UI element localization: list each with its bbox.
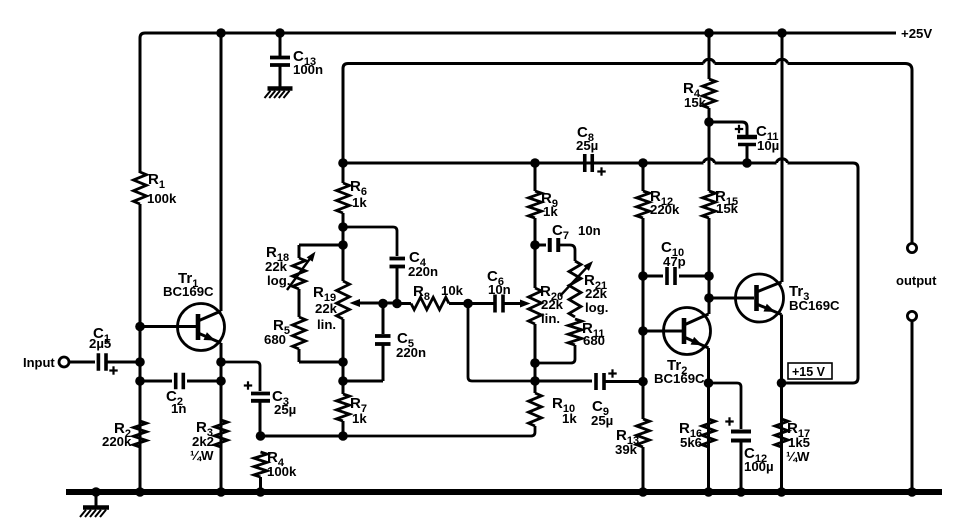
svg-text:1k: 1k <box>352 411 367 426</box>
label +25V <box>901 26 932 41</box>
label output <box>896 273 937 288</box>
wire C11 bottom <box>746 145 749 164</box>
node C3-R4 junction <box>256 431 266 441</box>
value C3 25u <box>272 388 296 417</box>
capacitor C1 <box>98 353 106 371</box>
node base-C1 <box>135 357 145 367</box>
plus C9 <box>608 369 616 377</box>
value R11 680 <box>582 320 605 348</box>
value R15 15k <box>715 188 739 216</box>
svg-text:2µ5: 2µ5 <box>89 336 111 351</box>
capacitor C2 <box>176 373 184 390</box>
wire C13 to ground <box>279 65 282 87</box>
svg-text:15k: 15k <box>684 95 707 110</box>
wire Tr3 emitter down <box>780 315 783 493</box>
wire C10 right stem <box>679 275 709 278</box>
wire C7 to R21 <box>559 245 576 261</box>
value C1 2u5 <box>89 325 111 351</box>
node R5 rejoin <box>338 357 348 367</box>
plus C3 <box>244 381 252 389</box>
wire C11 top <box>709 122 747 135</box>
value R21 22k log <box>584 272 608 315</box>
node C11 bottom junction <box>742 158 752 168</box>
node rail-R17 <box>777 487 787 497</box>
terminal output upper <box>907 243 916 252</box>
node base-C2 <box>135 376 145 386</box>
svg-text:10µ: 10µ <box>757 138 779 153</box>
wire return to C9 <box>535 380 592 383</box>
capacitor C13 <box>270 58 290 66</box>
svg-text:+25V: +25V <box>901 26 932 41</box>
value C6 10n <box>487 268 511 297</box>
wire Tr2 emitter down <box>707 348 710 492</box>
wire Tr3 collector up <box>781 33 784 282</box>
value C5 220n <box>396 330 426 360</box>
capacitor C6 <box>468 295 503 313</box>
svg-text:680: 680 <box>264 332 286 347</box>
resistor R12 <box>637 163 650 276</box>
node rail-R3 <box>216 487 226 497</box>
value C13 100n <box>293 48 323 77</box>
plus C11 <box>735 125 743 133</box>
node C7 branch <box>530 240 540 250</box>
node rail-R2 <box>135 487 145 497</box>
wire R18 branch top <box>299 245 343 258</box>
svg-text:25µ: 25µ <box>591 413 613 428</box>
value R17 1k5 1/4W <box>786 420 810 464</box>
value C9 25u <box>591 398 613 428</box>
wire R5 branch bottom <box>299 349 343 362</box>
node wiper-C4 <box>392 299 402 309</box>
wire C9 to Tr2 base node <box>604 380 643 383</box>
value C7 10n <box>552 222 601 242</box>
value C10 47p <box>661 239 686 269</box>
resistor R2 <box>134 421 147 447</box>
value R7 1k <box>350 395 367 426</box>
wire C3 to return line <box>260 401 343 436</box>
resistor R6 <box>337 183 350 213</box>
wire hop C8-row over Tr3 collector <box>777 159 788 163</box>
value R18 22k log <box>265 244 290 288</box>
wiper R19 <box>350 299 398 307</box>
transistor Tr1 BC169C <box>178 304 225 351</box>
capacitor C10 <box>667 267 675 285</box>
node rail-output <box>907 487 917 497</box>
node rail-ground <box>91 487 101 497</box>
wire C5 bottom <box>343 344 383 381</box>
node C4 branch <box>338 222 348 232</box>
wire C13 stem <box>279 33 282 56</box>
resistor R1 <box>134 172 147 326</box>
wire C1 to base node <box>106 361 140 364</box>
svg-text:1k: 1k <box>352 195 367 210</box>
capacitor C8 <box>585 154 593 172</box>
svg-text:Input: Input <box>23 355 55 370</box>
wire input to C1 <box>69 361 95 364</box>
node R18 branch <box>338 240 348 250</box>
svg-text:10n: 10n <box>488 282 511 297</box>
label Tr1 <box>163 270 214 299</box>
wire output lower to rail <box>911 321 914 493</box>
svg-text:100k: 100k <box>267 464 297 479</box>
wire R20 bottom <box>534 324 537 393</box>
value R8 10k <box>413 283 464 303</box>
wire feedback corner down <box>781 163 858 383</box>
capacitor C11 <box>737 137 757 145</box>
resistor R13 <box>637 419 650 492</box>
svg-text:220k: 220k <box>102 434 132 449</box>
wire C4 bottom <box>396 267 399 304</box>
wire R12 to base <box>642 276 645 419</box>
wire Tr3 base <box>709 297 754 300</box>
node base-R1 <box>135 322 145 332</box>
wire hop C8-row over R15 column <box>704 159 715 163</box>
label Input <box>23 355 55 370</box>
svg-text:lin.: lin. <box>541 311 560 326</box>
svg-text:1k5: 1k5 <box>788 435 810 450</box>
value R13 39k <box>615 427 639 457</box>
svg-text:¼W: ¼W <box>190 448 214 463</box>
value C8 25u <box>576 124 598 153</box>
value R9 1k <box>541 190 558 219</box>
wire C7 left <box>535 244 546 247</box>
svg-text:25µ: 25µ <box>274 402 296 417</box>
svg-text:220n: 220n <box>396 345 426 360</box>
resistor R4 (15k) <box>703 33 716 122</box>
svg-text:22k: 22k <box>265 259 288 274</box>
potentiometer R18 <box>287 252 316 291</box>
svg-text:1n: 1n <box>171 401 186 416</box>
wire output feedback rail <box>343 64 912 244</box>
potentiometer R21 <box>560 261 593 317</box>
resistor R15 <box>703 122 716 314</box>
svg-text:680: 680 <box>583 333 605 348</box>
resistor R10 <box>343 393 542 436</box>
node rail-C12 <box>736 487 746 497</box>
transistor Tr3 BC169C <box>736 274 784 322</box>
wire C12 bottom <box>740 441 743 493</box>
svg-text:22k: 22k <box>315 301 338 316</box>
node row-R12 <box>638 158 648 168</box>
svg-text:100µ: 100µ <box>744 459 774 474</box>
node C10 right <box>704 271 714 281</box>
svg-text:47p: 47p <box>663 254 686 269</box>
node rail-R13 <box>638 487 648 497</box>
wiper R20 <box>503 300 531 308</box>
plus C12 <box>725 417 733 425</box>
svg-text:220k: 220k <box>650 202 680 217</box>
svg-text:15k: 15k <box>716 201 739 216</box>
capacitor C12 <box>731 432 751 441</box>
node emitter-C2 <box>216 376 226 386</box>
wire R6 column top <box>342 163 345 183</box>
label Tr2 <box>654 357 705 386</box>
svg-text:100k: 100k <box>147 191 177 206</box>
wire R9 to R20 <box>534 218 537 288</box>
capacitor C9 <box>596 373 604 390</box>
wire C2 left <box>140 380 172 383</box>
node C9-R13 <box>638 377 648 387</box>
node R4-C11 <box>704 117 714 127</box>
ground C13 <box>265 89 293 99</box>
node emitter-C12 <box>704 378 714 388</box>
resistor R8 10k <box>397 297 468 309</box>
svg-text:log.: log. <box>267 273 290 288</box>
node wiper-C5 <box>378 299 388 309</box>
svg-text:10k: 10k <box>441 283 464 298</box>
svg-text:output: output <box>896 273 937 288</box>
svg-text:1k: 1k <box>543 204 558 219</box>
resistor R4 (100k) <box>254 452 267 492</box>
node C10 left <box>638 271 648 281</box>
svg-text:10n: 10n <box>578 223 601 238</box>
resistor R11 <box>568 319 582 345</box>
value R6 1k <box>350 178 367 210</box>
value R3 2k2 1/4W <box>190 419 214 463</box>
value C12 100u <box>744 445 774 474</box>
svg-text:25µ: 25µ <box>576 138 598 153</box>
ground symbol <box>80 495 109 517</box>
capacitor C5 <box>375 336 391 344</box>
wire hop feedback-rail over Tr3 collector <box>777 59 788 63</box>
value R10 1k <box>552 395 577 426</box>
wire R6 to junctions <box>342 213 345 281</box>
wire Tr1 base <box>140 325 198 328</box>
value C4 220n <box>408 249 438 279</box>
node R8-C6 <box>463 299 473 309</box>
resistor R16 <box>702 419 715 447</box>
wire Tr2 base <box>643 330 684 333</box>
label Tr3 <box>789 283 840 313</box>
node top rail / R4 <box>704 28 714 38</box>
svg-text:BC169C: BC169C <box>789 298 840 313</box>
svg-text:22k: 22k <box>585 286 608 301</box>
value R16 5k6 <box>679 420 702 450</box>
value R19 22k lin <box>313 284 338 332</box>
node Tr3 emitter junction <box>777 378 787 388</box>
wire feedback row <box>343 162 592 165</box>
node C5 branch <box>338 376 348 386</box>
value R20 22k lin <box>540 283 564 326</box>
transistor Tr2 BC169C <box>664 308 711 355</box>
value C11 10u <box>756 123 779 153</box>
node emitter-C3 <box>216 357 226 367</box>
resistor R9 <box>529 163 542 218</box>
value R12 220k <box>650 188 680 217</box>
svg-text:+15 V: +15 V <box>792 365 826 379</box>
wire hop feedback-rail over R4 column <box>704 59 715 63</box>
node feedback-R6 <box>338 158 348 168</box>
value C2 1n <box>166 388 186 416</box>
value R2 220k <box>102 420 132 449</box>
resistor R5 <box>293 317 306 349</box>
node feedback-R9 <box>530 158 540 168</box>
capacitor C4 <box>390 259 406 267</box>
wire R11 bottom <box>535 345 575 363</box>
svg-text:100n: 100n <box>293 62 323 77</box>
value R4 15k <box>683 80 707 110</box>
node Tr2 base node <box>638 326 648 336</box>
wire C2 right <box>187 380 221 383</box>
svg-text:22k: 22k <box>541 297 564 312</box>
svg-text:lin.: lin. <box>317 317 336 332</box>
wire C12 top <box>709 383 742 429</box>
resistor R17 <box>775 419 788 447</box>
node return-R20 <box>530 376 540 386</box>
wire R19 bottom <box>342 319 345 394</box>
node top rail / C13 <box>275 28 285 38</box>
svg-text:220n: 220n <box>408 264 438 279</box>
node top rail / Tr3 collector <box>777 28 787 38</box>
wire C10 left stem <box>643 275 663 278</box>
svg-text:BC169C: BC169C <box>163 284 214 299</box>
node R11 rejoin <box>530 358 540 368</box>
svg-text:1k: 1k <box>562 411 577 426</box>
value R1 100k <box>147 171 177 206</box>
resistor R7 <box>337 394 350 436</box>
wire base node column <box>139 326 142 492</box>
resistor R3 <box>215 420 228 447</box>
terminal input <box>59 357 69 367</box>
node top rail / Tr1 collector <box>216 28 226 38</box>
plus C1 <box>109 366 117 374</box>
wire +25V top rail <box>140 33 896 173</box>
resistor R20 <box>529 288 542 324</box>
wire ground rail <box>66 489 942 495</box>
wire C4 top <box>343 227 397 256</box>
node rail-R4 <box>256 487 266 497</box>
resistor R19 <box>337 281 350 319</box>
wire emitter to C3 <box>221 362 260 391</box>
wire R18-R5 <box>298 289 301 317</box>
capacitor C3 <box>251 394 270 401</box>
label +15V box <box>788 363 832 379</box>
svg-text:¼W: ¼W <box>786 449 810 464</box>
svg-text:BC169C: BC169C <box>654 371 705 386</box>
wire return left <box>468 304 535 382</box>
capacitor C7 <box>550 238 559 252</box>
svg-text:2k2: 2k2 <box>192 434 214 449</box>
terminal output lower <box>907 311 916 320</box>
wire Tr1 emitter down <box>220 343 223 492</box>
value R5 680 <box>264 317 290 347</box>
plus C8 <box>597 167 605 175</box>
svg-text:5k6: 5k6 <box>680 435 702 450</box>
node R7 return <box>338 431 348 441</box>
svg-text:39k: 39k <box>615 442 638 457</box>
node rail-R16 <box>704 487 714 497</box>
node Tr3 base node <box>704 293 714 303</box>
wire C5 top <box>382 304 385 335</box>
svg-text:log.: log. <box>585 300 608 315</box>
wire Tr1 collector up <box>220 33 223 311</box>
value R4 100k <box>267 449 297 479</box>
wire C8 to corner <box>593 162 854 165</box>
